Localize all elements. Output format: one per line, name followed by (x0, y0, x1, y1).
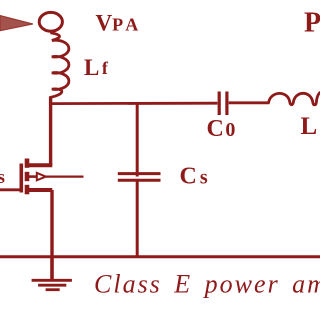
transistor Q1: drain lead (27, 163, 52, 167)
wire: top node horizontal (node to C0 left plate) (49, 102, 217, 105)
inductor Lf (choke coil) (50, 31, 69, 98)
transistor Q1: channel bar (source) (25, 185, 30, 195)
svg-text:C0: C0 (207, 116, 236, 142)
transistor Q1: gate lead wire (0, 188, 21, 191)
transistor Q1: body lead with arrow (29, 175, 37, 178)
wire: bottom ground rail (0, 255, 320, 258)
transistor Q1: source lead (27, 188, 52, 192)
ground symbol (50, 257, 54, 280)
svg-text:VPA: VPA (96, 11, 142, 36)
svg-text:s: s (0, 167, 5, 188)
svg-text:L: L (301, 113, 318, 140)
wire: Cs cap to ground rail (136, 181, 139, 257)
wire: C0 to series inductor (229, 101, 270, 104)
capacitor Cs plates (118, 172, 161, 175)
capacitor C0 plates (218, 92, 221, 116)
transistor Q1: channel bar (body) (25, 172, 30, 181)
wire: Cs branch from node down to cap (136, 103, 139, 177)
wire: source down to ground rail (50, 190, 53, 257)
wire: coil bottom to drain, vertical (49, 97, 52, 166)
svg-text:Cs: Cs (180, 164, 208, 190)
transistor Q1: gate bar (19, 164, 23, 193)
svg-text:Lf: Lf (84, 55, 109, 80)
series inductor L0 (humps, cut at right edge) (269, 92, 320, 105)
transistor Q1: channel bar (drain) (25, 159, 30, 168)
terminal circle VPA (39, 12, 62, 31)
svg-text:P: P (304, 8, 320, 39)
svg-text:Class E power amplifier: Class E power amplifier (94, 270, 320, 299)
input arrow (triangle) (0, 16, 33, 31)
